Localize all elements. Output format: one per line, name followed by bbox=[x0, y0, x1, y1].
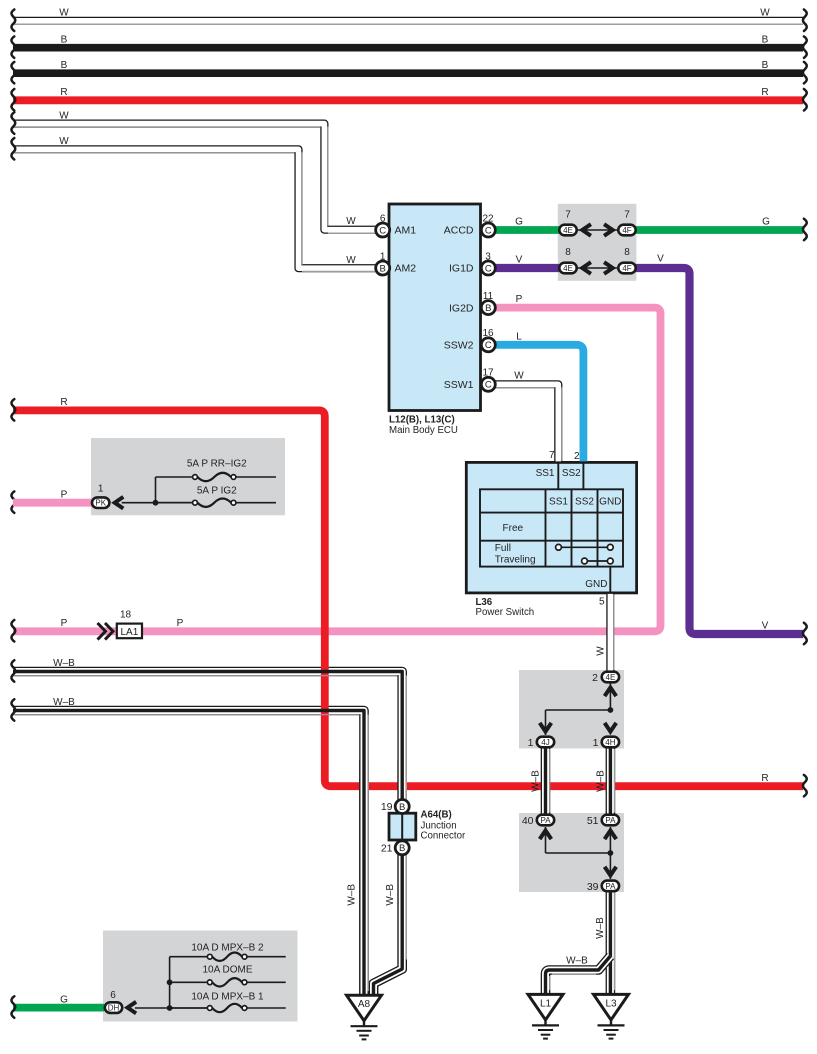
svg-text:4E: 4E bbox=[563, 226, 573, 235]
svg-text:V: V bbox=[762, 621, 769, 632]
svg-text:GND: GND bbox=[599, 497, 621, 508]
svg-text:B: B bbox=[485, 303, 491, 314]
svg-text:Power Switch: Power Switch bbox=[476, 607, 535, 618]
svg-text:7: 7 bbox=[549, 450, 555, 461]
svg-text:W: W bbox=[346, 216, 356, 227]
svg-text:Main Body ECU: Main Body ECU bbox=[389, 425, 458, 436]
svg-text:C: C bbox=[379, 225, 386, 236]
svg-text:B: B bbox=[762, 60, 769, 71]
svg-text:B: B bbox=[380, 263, 386, 274]
svg-text:11: 11 bbox=[483, 291, 494, 302]
svg-text:4H: 4H bbox=[605, 738, 615, 747]
svg-text:16: 16 bbox=[482, 328, 494, 339]
svg-text:W: W bbox=[514, 371, 524, 382]
svg-text:21: 21 bbox=[381, 843, 393, 855]
svg-text:V: V bbox=[657, 254, 664, 265]
svg-text:IG1D: IG1D bbox=[449, 263, 474, 275]
svg-text:W–B: W–B bbox=[347, 884, 358, 906]
svg-text:SS2: SS2 bbox=[562, 468, 581, 479]
svg-text:B: B bbox=[61, 60, 68, 71]
svg-text:1: 1 bbox=[98, 483, 104, 494]
svg-text:1: 1 bbox=[528, 737, 534, 749]
svg-text:SSW2: SSW2 bbox=[444, 340, 474, 352]
svg-text:W–B: W–B bbox=[595, 917, 606, 939]
svg-text:ACCD: ACCD bbox=[444, 225, 474, 237]
svg-text:IG2D: IG2D bbox=[449, 302, 474, 314]
svg-text:18: 18 bbox=[120, 610, 132, 621]
svg-text:1: 1 bbox=[380, 252, 386, 263]
svg-text:L: L bbox=[516, 332, 522, 343]
svg-text:G: G bbox=[60, 994, 68, 1005]
svg-text:W: W bbox=[59, 8, 69, 19]
svg-text:W: W bbox=[760, 8, 770, 19]
svg-text:A8: A8 bbox=[358, 999, 371, 1010]
svg-text:A64(B): A64(B) bbox=[421, 810, 452, 821]
svg-text:P: P bbox=[516, 294, 523, 305]
svg-text:1: 1 bbox=[593, 737, 599, 749]
svg-text:W–B: W–B bbox=[53, 658, 75, 669]
svg-text:V: V bbox=[516, 255, 523, 266]
svg-text:19: 19 bbox=[381, 801, 393, 813]
svg-text:7: 7 bbox=[624, 210, 630, 221]
svg-text:5A P IG2: 5A P IG2 bbox=[197, 486, 237, 497]
svg-text:39: 39 bbox=[587, 881, 599, 893]
svg-text:SS1: SS1 bbox=[549, 497, 568, 508]
svg-text:P: P bbox=[61, 618, 68, 629]
svg-text:2: 2 bbox=[574, 451, 580, 462]
svg-text:L1: L1 bbox=[540, 998, 552, 1009]
svg-text:Traveling: Traveling bbox=[495, 555, 536, 566]
svg-text:5A P RR–IG2: 5A P RR–IG2 bbox=[187, 459, 247, 470]
svg-text:C: C bbox=[485, 225, 492, 236]
svg-text:4F: 4F bbox=[622, 264, 631, 273]
svg-text:SS2: SS2 bbox=[575, 497, 594, 508]
svg-text:B: B bbox=[762, 35, 769, 46]
svg-text:PA: PA bbox=[540, 816, 551, 825]
svg-text:Free: Free bbox=[503, 523, 524, 534]
svg-text:PA: PA bbox=[605, 882, 616, 891]
svg-text:10A DOME: 10A DOME bbox=[202, 965, 252, 976]
svg-text:PA: PA bbox=[605, 816, 616, 825]
svg-text:10A D MPX–B 2: 10A D MPX–B 2 bbox=[191, 943, 264, 954]
svg-text:B: B bbox=[399, 802, 405, 813]
svg-text:DH: DH bbox=[108, 1004, 120, 1013]
svg-text:R: R bbox=[761, 87, 768, 98]
svg-text:P: P bbox=[177, 618, 184, 629]
svg-text:G: G bbox=[762, 217, 770, 228]
svg-text:W–B: W–B bbox=[566, 955, 588, 966]
svg-text:4J: 4J bbox=[541, 738, 549, 747]
svg-text:40: 40 bbox=[522, 815, 534, 827]
svg-text:W: W bbox=[59, 111, 69, 122]
svg-text:P: P bbox=[61, 489, 68, 500]
svg-text:8: 8 bbox=[624, 247, 630, 258]
svg-text:Full: Full bbox=[495, 543, 511, 554]
svg-text:SSW1: SSW1 bbox=[444, 379, 474, 391]
svg-text:4F: 4F bbox=[622, 226, 631, 235]
svg-text:Connector: Connector bbox=[421, 830, 466, 841]
svg-text:2: 2 bbox=[592, 672, 598, 684]
svg-text:R: R bbox=[60, 87, 67, 98]
svg-text:22: 22 bbox=[482, 213, 494, 224]
svg-text:W–B: W–B bbox=[531, 770, 542, 792]
svg-text:4E: 4E bbox=[563, 264, 573, 273]
svg-text:PK: PK bbox=[95, 499, 106, 508]
svg-text:W–B: W–B bbox=[385, 884, 396, 906]
svg-text:GND: GND bbox=[585, 579, 607, 590]
svg-text:AM2: AM2 bbox=[395, 263, 417, 275]
svg-text:G: G bbox=[515, 217, 523, 228]
svg-text:5: 5 bbox=[599, 596, 605, 607]
svg-text:17: 17 bbox=[482, 368, 494, 379]
svg-text:W: W bbox=[595, 646, 606, 656]
svg-text:4E: 4E bbox=[606, 673, 616, 682]
svg-text:R: R bbox=[60, 397, 67, 408]
svg-text:C: C bbox=[485, 340, 492, 351]
svg-text:SS1: SS1 bbox=[536, 468, 555, 479]
svg-text:B: B bbox=[61, 35, 68, 46]
svg-text:W–B: W–B bbox=[596, 770, 607, 792]
svg-text:7: 7 bbox=[565, 210, 571, 221]
svg-text:10A D MPX–B 1: 10A D MPX–B 1 bbox=[191, 992, 264, 1003]
svg-text:8: 8 bbox=[565, 247, 571, 258]
svg-text:R: R bbox=[761, 773, 768, 784]
svg-text:51: 51 bbox=[587, 815, 599, 827]
svg-text:C: C bbox=[485, 263, 492, 274]
svg-text:C: C bbox=[485, 380, 492, 391]
svg-text:W: W bbox=[346, 255, 356, 266]
svg-text:6: 6 bbox=[380, 214, 386, 225]
svg-text:W–B: W–B bbox=[53, 697, 75, 708]
svg-text:W: W bbox=[59, 136, 69, 147]
svg-text:6: 6 bbox=[110, 990, 116, 1001]
svg-text:LA1: LA1 bbox=[121, 627, 139, 638]
svg-text:3: 3 bbox=[485, 251, 491, 262]
svg-text:B: B bbox=[399, 843, 405, 854]
svg-text:L3: L3 bbox=[605, 998, 617, 1009]
svg-text:AM1: AM1 bbox=[395, 225, 417, 237]
